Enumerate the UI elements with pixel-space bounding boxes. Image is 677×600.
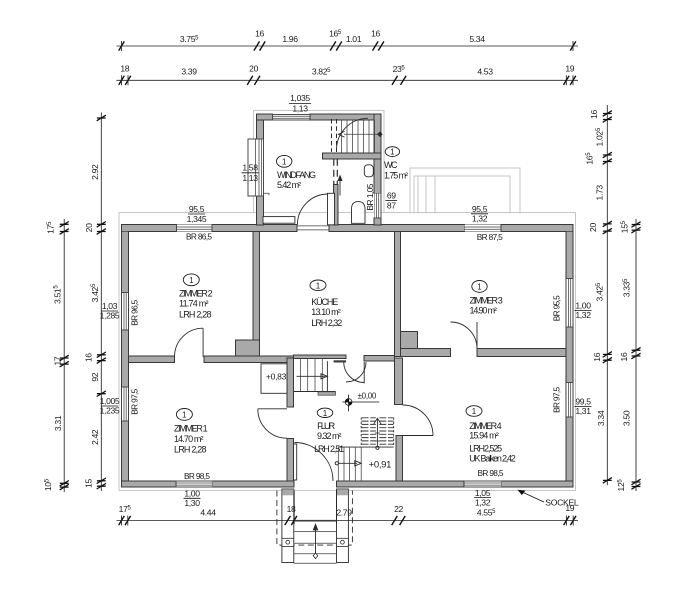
handrail end diamond	[377, 132, 383, 138]
svg-text:4.53: 4.53	[477, 67, 493, 77]
svg-text:14.90 m²: 14.90 m²	[470, 306, 497, 316]
exterior wall left	[122, 225, 129, 488]
exterior wall right	[566, 225, 573, 488]
box +0,83 landing	[261, 364, 287, 394]
room label windfang	[277, 155, 292, 167]
svg-text:5.42 m²: 5.42 m²	[277, 180, 301, 190]
small flight bottom edge	[294, 391, 336, 393]
porch wall under stair	[323, 153, 382, 159]
wall windfang-wc solid part	[334, 184, 339, 225]
svg-text:95,5: 95,5	[189, 204, 205, 214]
entrance door leaf against wall	[294, 444, 297, 480]
threshold windfang door to kueche	[297, 225, 329, 227]
small flight to landing treads	[300, 359, 322, 392]
door zimmer4 to zimmer3 arc	[451, 322, 478, 349]
interior wall horizontal segment c kueche-flur	[364, 356, 394, 362]
wc toilet	[352, 202, 366, 224]
level marker circle	[345, 399, 352, 406]
svg-text:16: 16	[589, 110, 599, 119]
exterior wall bottom segment d	[502, 481, 573, 487]
window zimmer4 right wall	[566, 383, 572, 418]
small flight arrow	[297, 375, 326, 377]
interior wall flur-zimmer4 upper	[395, 358, 403, 405]
svg-text:BR 96,5: BR 96,5	[130, 299, 140, 325]
door flur to zimmer4 leaf	[403, 435, 434, 437]
door zimmer1 to zimmer2 arc	[175, 328, 204, 357]
svg-text:SOCKEL: SOCKEL	[545, 498, 579, 508]
landing left edge	[326, 361, 328, 391]
exterior wall top segment a	[122, 225, 177, 232]
sockel outline porch	[254, 111, 385, 213]
porch wall right	[374, 114, 381, 193]
svg-text:4.44: 4.44	[200, 508, 216, 518]
svg-text:87: 87	[387, 200, 396, 210]
floor slab edge above stair flight	[294, 355, 347, 358]
svg-text:1,32: 1,32	[575, 310, 591, 320]
svg-text:1: 1	[390, 148, 395, 157]
exterior wall bottom segment a	[122, 481, 177, 487]
interior wall zimmer3-zimmer4 segment b	[477, 349, 566, 357]
svg-text:BR 97,5: BR 97,5	[552, 387, 562, 413]
exterior wall top segment c	[329, 225, 465, 232]
main stair up arrow	[376, 419, 378, 448]
svg-text:FLUR: FLUR	[317, 421, 336, 431]
svg-text:ZIMMER 3: ZIMMER 3	[470, 295, 503, 305]
door flur to zimmer1 leaf	[258, 408, 287, 410]
svg-text:20: 20	[84, 223, 94, 232]
svg-text:16: 16	[84, 353, 94, 362]
svg-text:2.79: 2.79	[336, 508, 352, 518]
svg-text:14.70 m²: 14.70 m²	[174, 434, 204, 444]
dim line left outer	[63, 219, 65, 492]
interior wall zimmer1-flur lower	[287, 438, 294, 481]
room label flur	[317, 408, 333, 417]
svg-text:1: 1	[472, 407, 477, 416]
svg-text:20: 20	[588, 223, 598, 232]
door windfang to kueche leaf	[328, 193, 335, 225]
porch stair dashed wall edge	[332, 119, 337, 152]
svg-text:1,345: 1,345	[187, 214, 207, 224]
porch stair treads	[342, 120, 375, 153]
door kueche to flur arc a	[346, 362, 366, 382]
interior wall zimmer3-zimmer4 segment a	[401, 349, 451, 357]
window zimmer1 bottom wall	[176, 481, 213, 487]
door kueche to flur arc b	[344, 362, 365, 383]
entrance door arc	[295, 443, 334, 482]
svg-text:15.94 m²: 15.94 m²	[469, 430, 499, 440]
terrace outer outline	[410, 168, 520, 214]
svg-text:2.42: 2.42	[90, 429, 100, 445]
chimney block at zimmer2-kueche wall	[235, 340, 259, 356]
interior wall horizontal zimmer2-zimmer1 segment a	[128, 356, 174, 362]
svg-text:ZIMMER 2: ZIMMER 2	[179, 288, 213, 298]
window zimmer3 top wall	[464, 225, 501, 231]
svg-text:BR 98,5: BR 98,5	[478, 468, 504, 478]
entrance left pilaster	[282, 489, 294, 563]
svg-text:+0,91: +0,91	[369, 460, 392, 471]
door zimmer1 to zimmer2 leaf	[202, 328, 204, 357]
svg-text:16: 16	[255, 29, 264, 39]
dim line right outer	[635, 219, 637, 491]
porch wall top segment a	[256, 114, 272, 120]
svg-text:11.74 m²: 11.74 m²	[179, 299, 209, 309]
main stair upper flight dashed treads	[362, 418, 394, 444]
landing top jamb bar	[334, 360, 346, 362]
window zimmer4 bottom wall	[464, 481, 502, 487]
entrance canopy dashed outline	[277, 491, 353, 546]
svg-text:ZIMMER 1: ZIMMER 1	[174, 424, 208, 434]
svg-text:15: 15	[84, 479, 94, 488]
interior wall horizontal segment b	[204, 356, 294, 362]
room label zimmer1	[176, 409, 192, 421]
svg-text:BR 97,5: BR 97,5	[130, 388, 140, 414]
svg-text:2.92: 2.92	[90, 164, 100, 180]
door at porch stair arc	[337, 118, 369, 150]
svg-text:1.01: 1.01	[346, 34, 362, 44]
svg-text:1,035: 1,035	[290, 93, 310, 103]
svg-text:1,00: 1,00	[575, 301, 591, 311]
door kueche to flur leaf	[363, 362, 365, 383]
svg-text:WINDFANG: WINDFANG	[277, 170, 316, 180]
svg-text:16: 16	[592, 352, 602, 361]
entrance landing edge	[294, 520, 337, 522]
main stair upper flight dashed side edges	[361, 418, 394, 445]
svg-text:1.96: 1.96	[282, 34, 298, 44]
porch stair handrail	[344, 133, 379, 135]
windfang entry arrow	[339, 178, 341, 196]
svg-text:92: 92	[90, 372, 100, 381]
exterior wall bottom segment b	[213, 481, 294, 487]
interior wall kueche-zimmer3	[394, 232, 400, 357]
svg-text:13.10 m²: 13.10 m²	[311, 307, 341, 317]
svg-text:+0,83: +0,83	[266, 372, 287, 382]
svg-text:3.34: 3.34	[596, 410, 606, 426]
svg-text:1: 1	[323, 409, 328, 418]
svg-text:LRH 2,51: LRH 2,51	[314, 444, 344, 454]
window zimmer2 left wall	[122, 293, 128, 330]
svg-text:69: 69	[387, 191, 396, 201]
svg-text:1,13: 1,13	[242, 173, 258, 183]
svg-text:16: 16	[619, 352, 629, 361]
svg-text:3.39: 3.39	[181, 67, 197, 77]
svg-text:1,30: 1,30	[184, 498, 200, 508]
exterior wall top segment b	[212, 225, 297, 232]
terrace inner outline	[414, 176, 510, 214]
svg-text:1,32: 1,32	[472, 213, 488, 223]
exterior wall top segment d	[501, 225, 573, 232]
main stair lower flight top edge	[338, 446, 393, 448]
exterior wall bottom segment c	[337, 481, 465, 487]
interior wall zimmer1-flur upper	[287, 358, 294, 407]
main stair lower flight arrow	[335, 462, 338, 465]
door flur to zimmer1 arc	[258, 409, 287, 438]
svg-text:1.75 m²: 1.75 m²	[384, 170, 408, 180]
dashed opening windfang-wc	[334, 159, 338, 184]
svg-text:±0,00: ±0,00	[358, 392, 377, 401]
room label zimmer4	[466, 406, 482, 417]
svg-text:BR 87,5: BR 87,5	[477, 232, 503, 242]
dim line bottom	[117, 520, 579, 522]
entrance steps	[294, 532, 337, 564]
svg-text:3.31: 3.31	[53, 415, 63, 431]
svg-text:1.73: 1.73	[595, 185, 605, 201]
svg-text:1: 1	[189, 276, 194, 285]
svg-text:17: 17	[52, 356, 62, 365]
svg-text:99,5: 99,5	[575, 397, 591, 407]
svg-text:20: 20	[249, 64, 258, 74]
svg-text:LRH 2,28: LRH 2,28	[179, 310, 212, 320]
door flur to zimmer4 arc	[403, 405, 434, 436]
window zimmer3 right wall	[566, 278, 572, 327]
svg-text:9.32 m²: 9.32 m²	[317, 431, 342, 441]
dim line right inner	[606, 105, 608, 485]
entrance right pilaster	[337, 489, 349, 563]
svg-text:3.50: 3.50	[622, 410, 632, 426]
porch wall top segment b	[310, 114, 381, 120]
sockel outline main building	[119, 212, 576, 490]
dim line top row2	[117, 79, 579, 81]
window zimmer1 left wall	[122, 387, 128, 421]
svg-text:UK Balken 2,42: UK Balken 2,42	[469, 454, 516, 464]
porch stair handrail arrow	[339, 131, 345, 137]
svg-text:1,285: 1,285	[100, 311, 120, 321]
window wc porch right wall	[374, 193, 381, 218]
svg-text:1,03: 1,03	[102, 301, 118, 311]
entrance up arrow	[315, 529, 317, 553]
room label kueche	[310, 280, 326, 291]
room label zimmer2	[183, 274, 199, 286]
svg-text:22: 22	[394, 504, 403, 514]
room label zimmer3	[472, 281, 487, 293]
terrace steps	[418, 176, 435, 214]
interior wall flur-zimmer4 lower	[396, 436, 403, 481]
chimney block at kueche-zimmer3 wall	[401, 331, 418, 351]
window windfang porch top wall	[273, 114, 310, 120]
main stair lower flight treads	[338, 447, 361, 481]
room label wc	[385, 147, 399, 157]
dim line left inner	[100, 113, 102, 492]
svg-text:16: 16	[371, 29, 380, 39]
corner seam patches	[122, 225, 128, 231]
door windfang to kueche arc	[297, 194, 328, 225]
porch wall left	[256, 114, 263, 139]
svg-text:BR 1,05: BR 1,05	[365, 183, 375, 210]
svg-text:WC: WC	[384, 160, 398, 170]
svg-text:1,58: 1,58	[242, 163, 258, 173]
svg-text:1: 1	[477, 283, 482, 292]
svg-text:LRH 2,32: LRH 2,32	[311, 318, 342, 328]
svg-text:1,31: 1,31	[575, 406, 591, 416]
gray stub below landing	[318, 392, 336, 395]
witness lines at entrance	[294, 491, 336, 525]
svg-text:BR 86,5: BR 86,5	[186, 232, 212, 242]
svg-text:18: 18	[120, 64, 129, 74]
svg-text:1: 1	[316, 281, 321, 290]
window sill notch windfang	[264, 193, 270, 195]
svg-text:KÜCHE: KÜCHE	[311, 297, 338, 307]
svg-text:LRH 2,28: LRH 2,28	[174, 445, 207, 455]
svg-text:BR 98,5: BR 98,5	[184, 471, 210, 481]
dim line top row1	[117, 45, 579, 47]
svg-text:1,05: 1,05	[475, 488, 491, 498]
svg-text:1: 1	[182, 411, 187, 420]
svg-text:19: 19	[565, 64, 574, 74]
windfang radiator	[263, 217, 295, 224]
wc sink	[364, 165, 373, 177]
svg-text:1,00: 1,00	[184, 489, 200, 499]
svg-text:1,005: 1,005	[100, 396, 120, 406]
svg-text:5.34: 5.34	[469, 34, 485, 44]
svg-text:BR 95,5: BR 95,5	[552, 295, 562, 321]
svg-text:1,235: 1,235	[100, 406, 120, 416]
svg-text:1: 1	[282, 158, 287, 167]
window zimmer2 top wall	[177, 225, 213, 231]
svg-text:1,13: 1,13	[292, 104, 308, 114]
svg-text:LRH2,525: LRH2,525	[469, 444, 502, 454]
window windfang porch left wall	[248, 139, 264, 196]
interior wall zimmer2-kueche	[253, 232, 259, 341]
svg-text:1,32: 1,32	[475, 497, 491, 507]
